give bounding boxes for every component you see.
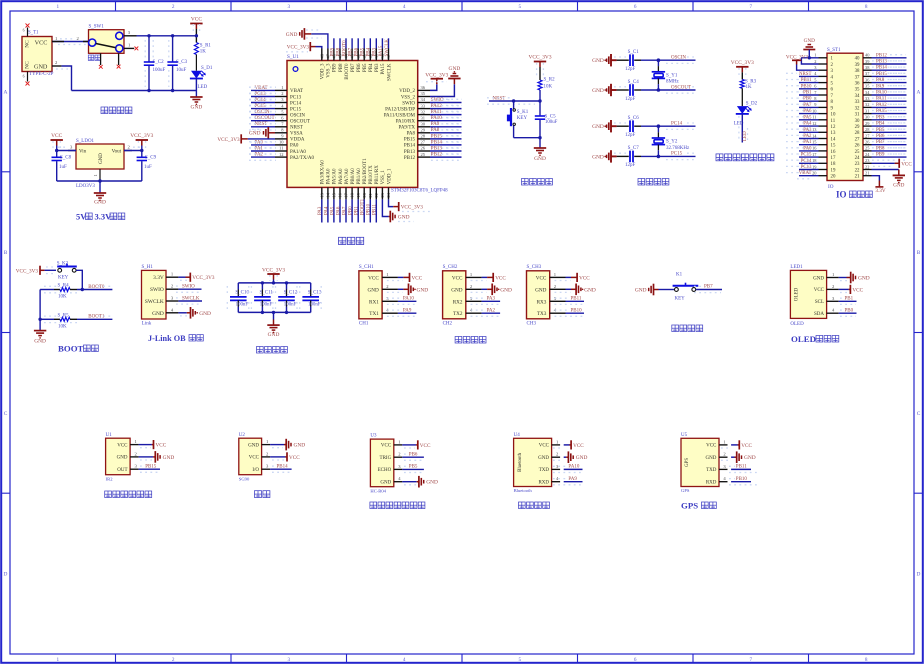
svg-text:PA11: PA11 <box>876 97 887 102</box>
svg-text:S_C10: S_C10 <box>235 291 249 296</box>
svg-text:3.3V: 3.3V <box>875 188 885 194</box>
svg-text:15: 15 <box>831 144 836 149</box>
node PA3 <box>321 199 323 222</box>
svg-text:PA15: PA15 <box>876 109 887 114</box>
svg-text:GND: GND <box>858 276 870 282</box>
svg-text:TX3: TX3 <box>537 311 547 317</box>
svg-text:1: 1 <box>281 85 283 90</box>
svg-text:26: 26 <box>855 144 860 149</box>
svg-text:7: 7 <box>750 657 753 663</box>
svg-text:20: 20 <box>831 175 836 180</box>
svg-text:S_R1: S_R1 <box>200 43 212 48</box>
svg-text:A: A <box>917 89 921 95</box>
svg-text:PB11: PB11 <box>571 297 582 302</box>
node PB10 (U5) <box>731 481 751 483</box>
svg-text:25: 25 <box>855 150 860 155</box>
svg-text:S_C13: S_C13 <box>308 291 322 296</box>
node PA4 <box>799 125 819 127</box>
caption IR module <box>105 491 112 498</box>
svg-text:B: B <box>917 250 921 256</box>
svg-text:NC: NC <box>25 61 31 69</box>
svg-text:12pF: 12pF <box>625 97 636 102</box>
node SWCLK <box>178 300 202 302</box>
svg-text:PC15: PC15 <box>290 107 302 112</box>
svg-text:S_C8: S_C8 <box>60 155 72 160</box>
svg-text:PB13: PB13 <box>431 146 443 151</box>
svg-text:1: 1 <box>814 53 816 58</box>
svg-text:TXD: TXD <box>706 468 717 473</box>
svg-text:BOOT0: BOOT0 <box>88 285 105 290</box>
svg-text:PB1: PB1 <box>803 91 812 96</box>
svg-text:GND: GND <box>592 88 604 94</box>
power VCC_3V3 (reset) <box>534 61 546 63</box>
svg-text:S_U1: S_U1 <box>287 54 299 60</box>
caption ultrasonic module <box>370 502 377 509</box>
LED S_D1 <box>191 71 202 79</box>
wire reset bottom <box>514 137 540 139</box>
node PB6 <box>357 38 359 48</box>
svg-text:SWCLK: SWCLK <box>385 39 390 57</box>
svg-text:GND: GND <box>813 276 824 281</box>
svg-text:PA4: PA4 <box>324 206 329 215</box>
ground GND (H1 pin4) <box>178 312 186 314</box>
svg-text:27: 27 <box>855 137 860 142</box>
svg-text:S_LDO1: S_LDO1 <box>76 139 95 144</box>
svg-text:PA6/A0: PA6/A0 <box>339 168 344 184</box>
wire ST1 pins 1-2 tie <box>801 57 818 59</box>
svg-text:100uF: 100uF <box>545 120 558 125</box>
module U3 HC-R04 <box>370 439 393 487</box>
node PB3 <box>872 119 907 121</box>
module U1 IR obstacle <box>106 438 131 475</box>
node OSCIN <box>251 114 275 116</box>
svg-text:10uF: 10uF <box>176 68 187 73</box>
svg-text:S_D1: S_D1 <box>201 66 213 71</box>
LED S_D2 <box>737 106 748 114</box>
svg-text:PB3: PB3 <box>373 47 378 56</box>
ground GND (filter) <box>273 312 275 319</box>
ground GND (ST1 pin 22) <box>872 169 899 171</box>
power VCC_3V3 (indicator) <box>736 66 748 68</box>
svg-text:KEY: KEY <box>675 296 686 301</box>
node SWIO <box>430 102 462 104</box>
svg-text:PA5/A0: PA5/A0 <box>333 168 338 184</box>
node NRST <box>489 100 540 102</box>
node PA2 <box>482 312 501 314</box>
svg-text:GND: GND <box>592 154 604 160</box>
svg-text:GND: GND <box>248 443 259 448</box>
svg-text:IO: IO <box>828 184 834 190</box>
svg-text:Vout: Vout <box>112 149 122 154</box>
wire VCC rail <box>137 35 197 37</box>
svg-text:PB6: PB6 <box>355 47 360 56</box>
power VCC (U5) <box>731 444 738 446</box>
svg-text:U1: U1 <box>106 433 113 438</box>
svg-text:PB13: PB13 <box>404 150 416 155</box>
svg-text:SCL: SCL <box>815 300 824 305</box>
svg-text:GPS: GPS <box>685 458 690 467</box>
node PB8 <box>872 150 907 152</box>
svg-text:IO: IO <box>836 190 847 200</box>
svg-text:S_H1: S_H1 <box>142 265 154 270</box>
power VCC_3V3 (VDD_1 pin 24) <box>389 199 394 206</box>
svg-text:VBAT: VBAT <box>799 171 812 176</box>
svg-text:PA2/TX/A0: PA2/TX/A0 <box>290 156 314 161</box>
svg-text:U5: U5 <box>681 433 688 438</box>
svg-text:VCC: VCC <box>814 288 825 293</box>
svg-text:K1: K1 <box>676 272 683 277</box>
svg-text:8: 8 <box>865 657 868 663</box>
svg-text:PB13: PB13 <box>876 60 887 65</box>
svg-text:PA1: PA1 <box>255 146 264 151</box>
svg-text:PB8: PB8 <box>339 63 344 72</box>
svg-text:GND: GND <box>268 332 280 338</box>
ground GND (BOOT) <box>39 319 41 330</box>
svg-text:PB15: PB15 <box>431 134 443 139</box>
svg-text:I/O: I/O <box>252 468 259 473</box>
svg-text:RX3: RX3 <box>537 299 547 305</box>
svg-text:GND: GND <box>893 183 904 189</box>
node SWCLK <box>388 38 390 48</box>
svg-text:PB15: PB15 <box>404 138 416 143</box>
svg-text:38: 38 <box>855 69 860 74</box>
node PA15 <box>381 38 383 48</box>
svg-text:GND: GND <box>635 287 647 293</box>
svg-text:PB5: PB5 <box>361 47 366 56</box>
node PB7 <box>696 289 722 291</box>
svg-text:GND: GND <box>417 287 429 293</box>
node NRST <box>251 126 275 128</box>
power VCC (CH3) <box>566 276 572 278</box>
svg-text:PC15: PC15 <box>671 152 683 157</box>
svg-text:12pF: 12pF <box>625 133 636 138</box>
svg-text:PB4: PB4 <box>367 47 372 56</box>
svg-text:PB2/BOOT1: PB2/BOOT1 <box>363 158 368 185</box>
svg-text:7: 7 <box>750 4 753 10</box>
svg-text:10K: 10K <box>58 325 67 330</box>
svg-text:PA10: PA10 <box>876 91 887 96</box>
svg-text:100nF: 100nF <box>284 303 297 308</box>
svg-text:VCC_3V3: VCC_3V3 <box>262 267 285 273</box>
node BOOT1 <box>363 199 365 222</box>
svg-text:S_Y2: S_Y2 <box>666 140 678 145</box>
ground GND (CH2) <box>482 288 488 290</box>
svg-text:VCC: VCC <box>579 275 590 281</box>
svg-text:VCC: VCC <box>420 443 431 449</box>
node PC13 <box>799 169 819 171</box>
svg-text:BOOT0: BOOT0 <box>345 63 350 80</box>
svg-text:PB15: PB15 <box>145 465 157 470</box>
svg-text:CH3: CH3 <box>527 322 537 327</box>
svg-text:PA7/A0: PA7/A0 <box>345 168 350 184</box>
svg-text:VDDA: VDDA <box>290 138 305 143</box>
svg-text:PC14: PC14 <box>801 159 812 164</box>
svg-text:PA3: PA3 <box>803 128 812 133</box>
svg-text:S_K1: S_K1 <box>517 110 529 115</box>
node PB4 <box>369 38 371 48</box>
caption serial circuit <box>455 337 462 344</box>
module U2 SG90 servo <box>239 438 262 475</box>
svg-text:PB9: PB9 <box>330 47 335 56</box>
svg-text:PB3: PB3 <box>375 63 380 72</box>
node PA0 <box>799 150 819 152</box>
ground GND (U3) <box>402 481 416 483</box>
svg-text:6: 6 <box>634 657 637 663</box>
node PB5 <box>872 131 907 133</box>
svg-text:PA8: PA8 <box>407 132 416 137</box>
svg-text:PB6: PB6 <box>357 63 362 72</box>
svg-text:PA9/TX: PA9/TX <box>399 126 416 131</box>
svg-text:C: C <box>4 411 8 417</box>
svg-text:36: 36 <box>421 85 426 90</box>
svg-text:19: 19 <box>831 168 836 173</box>
svg-text:PB7: PB7 <box>876 140 885 145</box>
svg-text:BOOT: BOOT <box>58 344 84 354</box>
svg-text:TYPE-C-2P: TYPE-C-2P <box>29 72 54 77</box>
node PB8 <box>339 38 341 48</box>
node PB9 <box>872 156 907 158</box>
ground GND (U1) <box>139 456 154 458</box>
svg-text:1K: 1K <box>200 49 207 54</box>
svg-text:PA7: PA7 <box>342 206 347 215</box>
svg-text:21: 21 <box>865 171 869 176</box>
node PA10 <box>872 94 907 96</box>
svg-text:NRST: NRST <box>290 126 303 131</box>
svg-text:PB14: PB14 <box>431 140 443 145</box>
svg-text:GND: GND <box>534 156 546 162</box>
svg-text:LED: LED <box>198 85 208 90</box>
svg-text:PB0: PB0 <box>803 97 812 102</box>
svg-text:30: 30 <box>421 122 426 127</box>
node PA6 <box>799 113 819 115</box>
node VBAT <box>799 175 819 177</box>
svg-text:PA6: PA6 <box>336 206 341 215</box>
svg-text:S_T1: S_T1 <box>28 30 39 35</box>
svg-text:1uF: 1uF <box>59 165 67 170</box>
svg-text:VCC: VCC <box>495 275 506 281</box>
node PA12 <box>430 108 462 110</box>
crystal S_Y1 8MHz <box>657 60 659 66</box>
node PB9 <box>333 38 335 48</box>
svg-text:OSCOUT: OSCOUT <box>671 85 691 90</box>
node PB10 <box>369 199 371 222</box>
svg-text:PA10/RX: PA10/RX <box>396 120 416 125</box>
svg-text:OSCIN: OSCIN <box>671 56 686 61</box>
svg-text:PA8: PA8 <box>876 78 885 83</box>
svg-text:GND: GND <box>199 311 211 317</box>
svg-text:VCC_3V3: VCC_3V3 <box>192 275 215 281</box>
node PB3 <box>375 38 377 48</box>
svg-text:GND: GND <box>744 455 756 461</box>
svg-text:GND: GND <box>117 456 128 461</box>
svg-text:PB1/A0: PB1/A0 <box>357 168 362 185</box>
svg-text:VCC: VCC <box>536 275 547 281</box>
wire filter bottom rail <box>238 311 310 313</box>
svg-text:GND: GND <box>706 456 717 461</box>
svg-text:S_CH1: S_CH1 <box>359 265 374 270</box>
svg-text:J-Link OB: J-Link OB <box>148 334 186 343</box>
wire LDO output <box>124 150 142 152</box>
ground GND (CH1) <box>398 288 404 290</box>
svg-text:VCC: VCC <box>852 287 863 293</box>
svg-text:PB8: PB8 <box>876 146 885 151</box>
svg-text:14: 14 <box>831 137 836 142</box>
svg-text:39: 39 <box>855 63 860 68</box>
caption key circuit <box>672 325 679 332</box>
svg-text:S_CH3: S_CH3 <box>527 265 542 270</box>
svg-text:29: 29 <box>421 128 426 133</box>
svg-text:2: 2 <box>281 91 283 96</box>
node OSCOUT <box>251 120 275 122</box>
svg-text:PA10: PA10 <box>568 465 579 470</box>
power VCC (U2) <box>270 456 285 458</box>
svg-text:PB12: PB12 <box>876 53 887 58</box>
svg-text:PB4: PB4 <box>369 63 374 72</box>
caption power circuit <box>101 107 108 114</box>
node PB4 <box>872 125 907 127</box>
svg-text:VSS_3: VSS_3 <box>327 63 332 78</box>
svg-text:PC15: PC15 <box>801 153 812 158</box>
svg-text:Bluetooth: Bluetooth <box>514 488 533 493</box>
svg-text:22: 22 <box>865 164 869 169</box>
switch S_SW1 <box>89 30 125 54</box>
svg-text:6: 6 <box>23 75 25 79</box>
ground GND (U5) <box>731 456 734 458</box>
svg-text:OSCIN: OSCIN <box>290 113 305 118</box>
svg-text:18: 18 <box>831 162 836 167</box>
svg-text:GND: GND <box>294 443 306 449</box>
ground GND (VSS_2 pin 35) <box>430 84 454 96</box>
svg-text:GND: GND <box>804 38 815 44</box>
svg-text:VCC_3V3: VCC_3V3 <box>528 54 551 60</box>
ground GND (VSS_1 pin 23) <box>382 199 388 216</box>
svg-text:PB7: PB7 <box>351 63 356 72</box>
node PB5 <box>402 468 424 470</box>
svg-text:VCC_3V3: VCC_3V3 <box>287 44 310 50</box>
svg-text:21: 21 <box>855 175 860 180</box>
node PA15 <box>872 113 907 115</box>
node PA7 <box>345 199 347 222</box>
svg-text:22: 22 <box>855 168 860 173</box>
svg-text:PB11: PB11 <box>373 204 378 215</box>
pushbutton S_K1 KEY <box>513 101 515 109</box>
node 3.3V (ST1 pin 21) <box>872 176 880 181</box>
ground GND (U4) <box>564 456 567 458</box>
node PB7 <box>872 144 907 146</box>
node PA10 (U4) <box>564 468 583 470</box>
svg-text:GND: GND <box>538 456 549 461</box>
svg-text:PA3: PA3 <box>487 297 496 302</box>
svg-text:GND: GND <box>191 105 203 111</box>
svg-text:CH1: CH1 <box>359 322 369 327</box>
svg-text:ECHO: ECHO <box>378 468 392 473</box>
power VCC (OLED pin2) <box>839 288 849 290</box>
svg-text:GND: GND <box>398 214 410 220</box>
node PB12 <box>872 57 907 59</box>
svg-text:OUT: OUT <box>117 468 127 473</box>
svg-text:GND: GND <box>34 339 46 345</box>
svg-text:4: 4 <box>403 657 406 663</box>
svg-text:IR2: IR2 <box>106 476 114 481</box>
node BOOT0 <box>345 38 347 48</box>
svg-text:S_SW1: S_SW1 <box>89 25 105 30</box>
svg-text:35: 35 <box>855 88 860 93</box>
svg-text:GND: GND <box>592 58 604 64</box>
svg-text:23: 23 <box>855 162 860 167</box>
svg-text:S_C7: S_C7 <box>628 146 640 151</box>
svg-text:GND: GND <box>535 287 546 293</box>
svg-text:3.3V: 3.3V <box>95 212 113 222</box>
svg-text:25: 25 <box>421 152 426 157</box>
svg-text:PB5: PB5 <box>363 63 368 72</box>
resistor S_R3 1K <box>740 80 744 89</box>
node PB15 <box>430 138 462 140</box>
node PA9 <box>872 88 907 90</box>
svg-text:VCC: VCC <box>741 443 752 449</box>
node PA9 <box>398 312 417 314</box>
node PB13 <box>872 63 907 65</box>
wire BOOT left rail <box>39 290 41 320</box>
node PA10 <box>430 120 462 122</box>
node PC14 <box>251 102 275 104</box>
svg-text:PB6: PB6 <box>409 453 418 458</box>
svg-text:PA3: PA3 <box>318 206 323 215</box>
svg-text:PC14: PC14 <box>671 122 683 127</box>
power VCC (CH1) <box>398 276 404 278</box>
svg-text:VCC: VCC <box>289 455 300 461</box>
svg-text:26: 26 <box>421 146 426 151</box>
svg-text:10K: 10K <box>58 295 67 300</box>
svg-text:37: 37 <box>855 75 860 80</box>
svg-text:GND: GND <box>500 287 512 293</box>
svg-text:PA10: PA10 <box>403 297 414 302</box>
regulator S_LDO1 LDO3V3 <box>76 144 124 169</box>
svg-text:VCC: VCC <box>191 16 202 22</box>
svg-text:PA9: PA9 <box>568 477 577 482</box>
svg-text:32: 32 <box>421 109 426 114</box>
svg-text:PB10: PB10 <box>736 477 748 482</box>
svg-text:VCC: VCC <box>51 133 62 139</box>
svg-text:12: 12 <box>279 152 284 157</box>
node PA3 <box>482 300 501 302</box>
svg-text:31: 31 <box>865 108 869 113</box>
node PA11 <box>430 114 462 116</box>
power VCC_3V3 (VDD_2 pin 36) <box>430 84 437 90</box>
node PB11 <box>566 300 585 302</box>
node NRST <box>799 75 819 77</box>
node PC15 <box>251 108 275 110</box>
svg-text:33: 33 <box>855 100 860 105</box>
node PB10 <box>566 312 585 314</box>
svg-text:S_C3: S_C3 <box>176 60 188 65</box>
svg-text:Vin: Vin <box>79 149 87 154</box>
svg-text:32: 32 <box>865 102 869 107</box>
svg-text:VBAT: VBAT <box>290 89 303 94</box>
power port VCC_3V3 (LDO out) <box>136 139 148 141</box>
svg-text:GND: GND <box>592 124 604 130</box>
svg-text:PB14: PB14 <box>277 465 289 470</box>
svg-text:13: 13 <box>831 131 836 136</box>
svg-text:TRIG: TRIG <box>380 456 392 461</box>
svg-text:12pF: 12pF <box>625 67 636 72</box>
connector S_CH2 <box>443 271 466 319</box>
power VCC (CH2) <box>482 276 488 278</box>
svg-text:NRST: NRST <box>493 96 506 101</box>
svg-text:GND: GND <box>368 287 379 293</box>
svg-text:U3: U3 <box>370 434 377 439</box>
svg-text:HC-R04: HC-R04 <box>370 488 386 493</box>
svg-text:LED1: LED1 <box>790 265 803 270</box>
